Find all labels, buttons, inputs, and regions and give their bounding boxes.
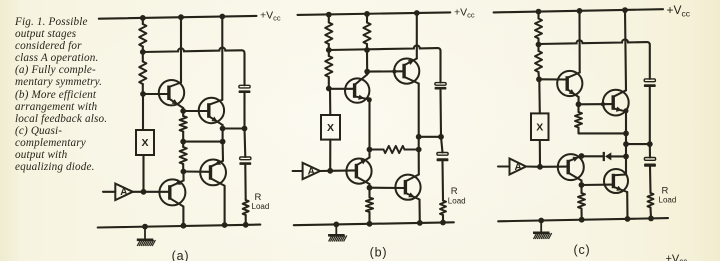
wire Tb3 collector to node (b) — [368, 184, 370, 188]
label R (a) — [255, 192, 262, 203]
node input junction (b) — [327, 168, 333, 174]
wire T4 base (a) — [144, 191, 170, 193]
resistor R3 (b) — [325, 50, 332, 89]
node output-R3 (c) — [623, 131, 629, 137]
label Load (a) — [252, 202, 270, 211]
node Tb1 base junction (b) — [326, 86, 332, 92]
node bootstrap junction (c) — [536, 42, 542, 48]
wire C2 to Rload (b) — [441, 161, 444, 200]
label +V fragment bottom right — [666, 253, 688, 261]
svg-text:A: A — [308, 166, 315, 177]
wire +Vcc rail (c) — [494, 9, 663, 12]
svg-text:X: X — [141, 137, 148, 149]
wire to C2 (b) — [441, 137, 443, 153]
node rail-Tc1col (c) — [577, 8, 583, 14]
svg-text:Load: Load — [448, 197, 466, 206]
caption text — [15, 16, 127, 173]
wire R2 to Tb1 collector (b) — [366, 50, 368, 75]
node feedback-R left (b) — [367, 147, 373, 153]
wire R3 to output column (c) — [579, 130, 627, 133]
node cap tap link (c) — [623, 141, 629, 147]
node cap tap (a) — [242, 126, 248, 132]
wire Tc1 base (c) — [539, 78, 567, 80]
node R2 bottom (b) — [364, 47, 370, 53]
wire C2 to Rload (a) — [244, 165, 246, 200]
node rail-Tb2col (b) — [414, 10, 420, 16]
wire Tb4 emitter to rail (b) — [418, 200, 420, 223]
node Rload rail (c) — [648, 216, 654, 222]
wire R3R4 tap (a) — [183, 141, 222, 143]
wire bootstrap line to C1 (c) — [539, 39, 650, 78]
node rail-R1 (b) — [326, 12, 332, 18]
node R4 rail (c) — [579, 217, 585, 223]
resistor R3 (a) — [180, 111, 187, 142]
wire +Vcc rail (a) — [99, 16, 257, 19]
label (b) — [370, 246, 388, 260]
label +Vcc (c) — [667, 3, 691, 18]
wire Tc1 emitter to node (c) — [577, 97, 579, 104]
node gnd-sym (c) — [538, 218, 544, 224]
node input junction (a) — [141, 189, 147, 195]
node rail-R1 (a) — [140, 15, 146, 21]
wire output down (a) — [222, 129, 224, 142]
wire Tc2 base (c) — [579, 103, 614, 105]
node T3 rail (a) — [222, 222, 228, 228]
wire input (c) — [498, 165, 510, 167]
wire C1 to tap (b) — [439, 90, 442, 137]
wire Tc2 collector column (c) — [625, 10, 626, 90]
svg-text:(c): (c) — [574, 243, 591, 257]
capacitor C1 (a) — [239, 85, 251, 93]
node R4 rail (b) — [367, 221, 373, 227]
capacitor C2 (c) — [644, 158, 656, 167]
node T1e-T2b (a) — [180, 108, 186, 114]
wire T2 collector column (a) — [221, 17, 223, 100]
wire input (a) — [103, 191, 115, 193]
capacitor C1 (c) — [644, 79, 656, 87]
op-amp A driver (b) — [303, 163, 321, 179]
wire Tc1 collector column (c) — [578, 11, 580, 73]
wire Tc3 base (c) — [540, 166, 568, 168]
ground (a) — [137, 227, 156, 246]
wire C1 to output node (a) — [243, 93, 245, 129]
node Tc1 base junction (c) — [536, 76, 542, 82]
node R1 bottom (b) — [326, 47, 332, 53]
transistor T2 (a) — [199, 98, 224, 125]
node Tb4 rail (b) — [417, 220, 423, 226]
wire T2 base (a) — [183, 110, 209, 112]
resistor R Load (a) — [243, 200, 249, 225]
wire T3 base (a) — [183, 170, 210, 172]
node Tb1c-Tb2b (b) — [364, 69, 370, 75]
svg-text:Load: Load — [659, 195, 677, 204]
node Tc3 emitter node (c) — [579, 153, 585, 159]
wire C2 to Rload (c) — [649, 167, 652, 193]
node Tc2 emitter junction (c) — [624, 108, 629, 113]
svg-text:+Vcc: +Vcc — [454, 6, 475, 19]
resistor R feedback (b) — [370, 146, 419, 153]
box X bias network (a) — [136, 130, 154, 155]
resistor R1 (a) — [139, 18, 146, 52]
node Tc3c-Tc4b (c) — [579, 182, 585, 188]
node input junction (c) — [537, 164, 543, 170]
resistor R Load (b) — [440, 201, 446, 223]
label (a) — [172, 249, 190, 261]
resistor R4 (a) — [180, 142, 187, 172]
transistor Tc3 (c) — [558, 154, 584, 180]
wire Tb2 base (b) — [367, 70, 404, 72]
transistor T4 (a) — [159, 179, 185, 206]
wire to bias box X (b) — [329, 89, 331, 116]
wire T3 collector to rail (a) — [224, 186, 226, 225]
svg-text:+Vcc: +Vcc — [667, 3, 691, 18]
node cap tap link (b) — [416, 134, 422, 140]
node Tb1 emitter junction (b) — [367, 97, 372, 102]
transistor T1 (a) — [159, 80, 184, 108]
label Load (b) — [448, 197, 466, 206]
node rail-R1 (c) — [536, 9, 542, 15]
label (c) — [574, 243, 591, 257]
svg-text:Load: Load — [252, 202, 270, 211]
wire bootstrap line to C1 (a) — [143, 48, 245, 86]
resistor R2 (c) — [535, 45, 542, 80]
node feedback-R right (b) — [416, 147, 422, 153]
wire input (b) — [293, 170, 303, 172]
wire C1 to tap (c) — [649, 87, 651, 144]
op-amp A driver (a) — [115, 184, 133, 201]
resistor R4 (b) — [366, 188, 373, 224]
transistor T3 (a) — [200, 160, 226, 186]
wire Tc3 collector to node (c) — [580, 181, 582, 186]
label R (c) — [662, 185, 669, 196]
svg-text:+Vcc: +Vcc — [666, 253, 688, 261]
ground (c) — [533, 221, 552, 240]
node R3-R4 (a) — [180, 139, 186, 145]
label +Vcc (b) — [454, 6, 475, 19]
wire Tb1 base (b) — [329, 88, 355, 90]
wire to bias box X (a) — [142, 94, 144, 130]
box X bias network (b) — [321, 115, 340, 140]
transistor Tb3 (b) — [346, 158, 371, 185]
resistor R1 (b) — [325, 15, 332, 50]
node cap tap (c) — [647, 141, 653, 147]
wire X to input node (a) — [142, 155, 144, 192]
node output-R junction (a) — [220, 139, 226, 145]
wire R4 to T4 emitter (a) — [182, 172, 184, 181]
transistor Tb4 (b) — [395, 175, 420, 200]
node rail-Tc2col (c) — [622, 7, 628, 13]
transistor Tc4 (c) — [604, 169, 628, 193]
wire +Vcc rail (b) — [298, 12, 451, 15]
wire T1 emitter to node (a) — [182, 108, 184, 111]
resistor R1 (c) — [535, 12, 542, 45]
node Tc2 base entry (c) — [601, 102, 605, 106]
svg-text:X: X — [327, 122, 334, 134]
node Tc1e-Tc2b (c) — [576, 101, 582, 107]
wire T4 collector to rail (a) — [182, 207, 184, 226]
wire Tb1 emitter column (b) — [368, 100, 370, 150]
node rail-R2 (b) — [364, 11, 370, 17]
wire bootstrap line to C1 (b) — [329, 45, 441, 82]
resistor R Load (c) — [648, 193, 654, 218]
wire A output (c) — [526, 165, 540, 167]
node bootstrap junction (a) — [140, 49, 146, 55]
ground (b) — [328, 224, 347, 241]
capacitor C2 (a) — [239, 157, 251, 165]
node T3 base junction (a) — [181, 169, 187, 175]
node Tc4 rail (c) — [625, 216, 631, 222]
transistor Tb2 (b) — [394, 59, 419, 84]
op-amp A driver (c) — [510, 159, 527, 175]
wire Tc4 emitter to rail (c) — [626, 192, 628, 219]
wire X to input node (b) — [329, 140, 331, 171]
wire Tb2 emitter column (b) — [418, 84, 420, 150]
wire to C2 (a) — [243, 129, 246, 158]
wire ground rail (b) — [294, 222, 454, 225]
node rail-T1col (a) — [178, 14, 184, 20]
wire to C2 (c) — [649, 144, 651, 157]
node Rload rail (a) — [243, 222, 249, 228]
node T4 rail (a) — [181, 223, 187, 229]
node Tb2 base entry (b) — [392, 69, 396, 73]
node gnd-sym (b) — [333, 222, 339, 228]
wire T1 base (a) — [143, 93, 169, 95]
wire to bias box X (c) — [538, 79, 541, 113]
label R (b) — [451, 186, 458, 197]
label Load (c) — [659, 195, 677, 204]
wire tap link (c) — [626, 143, 650, 145]
resistor R4 (c) — [578, 185, 585, 220]
label +Vcc (a) — [260, 9, 281, 22]
resistor R3 (c) — [575, 104, 582, 130]
node T1 base junction (a) — [140, 91, 146, 97]
node Rload rail (b) — [440, 220, 446, 226]
capacitor C2 (b) — [437, 153, 449, 162]
wire output to T3 emitter (a) — [222, 142, 224, 161]
wire A output (a) — [133, 191, 144, 193]
svg-text:(b): (b) — [370, 246, 388, 260]
transistor Tc2 (c) — [603, 90, 629, 116]
wire tap link (b) — [419, 136, 441, 138]
wire ground rail (c) — [498, 218, 668, 221]
resistor R2 (a) — [139, 52, 146, 94]
wire ground rail (a) — [98, 225, 261, 228]
node gnd-sym (a) — [142, 224, 148, 230]
wire T2 emitter to output (a) — [222, 125, 224, 129]
transistor Tb1 (b) — [345, 75, 370, 103]
wire output column upper (b) — [368, 150, 370, 158]
node output (a) — [220, 126, 226, 132]
wire X to input node (c) — [539, 140, 541, 167]
box X bias network (c) — [531, 113, 549, 140]
svg-text:+Vcc: +Vcc — [260, 9, 281, 22]
node cap tap (b) — [438, 134, 444, 140]
wire output column (c) — [625, 112, 627, 175]
node rail-T2col (a) — [219, 14, 225, 20]
capacitor C1 (b) — [435, 83, 447, 90]
node diode junction (c) — [623, 154, 629, 160]
svg-text:A: A — [120, 187, 127, 198]
wire Tb2 collector column (b) — [416, 13, 418, 59]
svg-text:A: A — [515, 162, 522, 173]
transistor Tc1 (c) — [557, 71, 582, 97]
wire T1 collector column (a) — [180, 17, 182, 82]
resistor R2 (b) — [363, 14, 370, 50]
wire A output (b) — [320, 170, 330, 172]
svg-text:(a): (a) — [172, 249, 190, 261]
wire Tb3 base (b) — [330, 169, 356, 172]
node Tb3c-Tb4b (b) — [367, 185, 373, 191]
wire output to capacitors (a) — [223, 127, 245, 129]
svg-text:X: X — [536, 121, 543, 133]
wire to Tb4 collector (b) — [418, 150, 420, 175]
diode D1 equalizing (c) — [582, 152, 627, 161]
wire Tb4 base (b) — [370, 187, 406, 189]
wire Tc4 base (c) — [582, 184, 614, 186]
